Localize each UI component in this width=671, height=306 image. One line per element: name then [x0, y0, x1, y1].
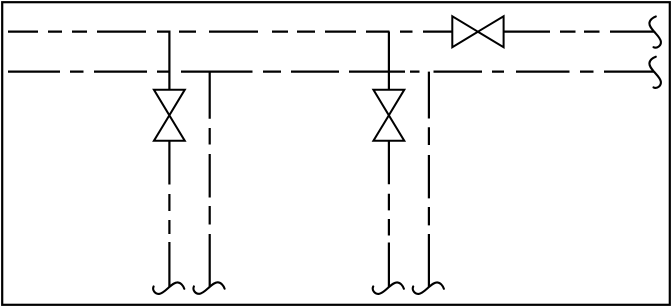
pipe break squiggle at bottom of branch drop 3	[373, 282, 404, 294]
pipe break squiggle at bottom of branch drop 1	[153, 282, 184, 294]
wire: branch drop 3 upper (x=388.9, header1 to valve V2)	[388, 32, 390, 90]
wire: lower header line (dash-dot linetype, y=71.6)	[8, 70, 654, 72]
wire: upper header line (phantom linetype, y=31.6)	[8, 31, 654, 33]
wire: branch drop 4 dashed (x=428.9, header2 to break)	[428, 72, 430, 288]
wire: branch drop 3 lower dashed (x=388.9, valve V2 to break)	[388, 141, 390, 288]
wire: branch drop 1 upper (x=169.4, header1 to valve V1)	[168, 32, 170, 90]
pipe break squiggle at bottom of branch drop 4	[413, 282, 444, 294]
valve V3 (horizontal bowtie on upper header)	[452, 16, 503, 47]
pipe break squiggle at right end of lower header	[649, 57, 661, 88]
pipe break squiggle at bottom of branch drop 2	[193, 282, 224, 294]
valve V2 (vertical bowtie on branch drop 3)	[373, 90, 404, 141]
pipe break squiggle at right end of upper header	[649, 17, 661, 48]
wire: branch drop 2 dashed (x=209.7, header2 to break)	[209, 72, 211, 288]
wire: branch drop 1 lower dashed (x=169.4, valve V1 to break)	[168, 141, 170, 288]
valve V1 (vertical bowtie on branch drop 1)	[154, 90, 185, 141]
